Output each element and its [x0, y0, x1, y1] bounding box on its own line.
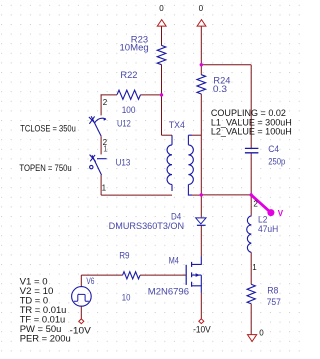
- svg-text:1: 1: [102, 183, 107, 192]
- svg-text:10Meg: 10Meg: [120, 43, 149, 53]
- svg-text:0: 0: [199, 4, 204, 13]
- svg-text:R22: R22: [120, 70, 137, 80]
- svg-text:L2_VALUE = 100uH: L2_VALUE = 100uH: [211, 127, 292, 138]
- svg-text:U12: U12: [117, 119, 131, 129]
- svg-text:TX4: TX4: [169, 120, 185, 130]
- svg-text:M2N6796: M2N6796: [148, 286, 189, 296]
- svg-text:-10V: -10V: [193, 325, 211, 336]
- svg-text:0: 0: [259, 329, 264, 338]
- svg-text:PER = 200u: PER = 200u: [20, 334, 71, 345]
- svg-text:2: 2: [103, 98, 108, 107]
- svg-text:DMURS360T3/ON: DMURS360T3/ON: [109, 221, 184, 231]
- svg-text:R8: R8: [267, 286, 278, 296]
- svg-text:0: 0: [159, 4, 164, 13]
- svg-text:M4: M4: [169, 256, 179, 266]
- svg-text:0.3: 0.3: [213, 84, 227, 94]
- svg-text:10: 10: [122, 292, 131, 302]
- svg-text:R9: R9: [119, 251, 129, 261]
- svg-text:1: 1: [103, 145, 108, 154]
- svg-text:U13: U13: [116, 157, 131, 167]
- svg-text:47uH: 47uH: [258, 224, 278, 234]
- svg-text:TCLOSE = 350u: TCLOSE = 350u: [20, 124, 76, 135]
- svg-text:757: 757: [267, 297, 281, 307]
- svg-text:V6: V6: [86, 276, 94, 286]
- svg-text:250p: 250p: [268, 157, 285, 167]
- svg-text:V: V: [278, 209, 284, 218]
- svg-text:1: 1: [252, 263, 257, 272]
- svg-text:-10V: -10V: [70, 325, 92, 336]
- svg-text:TOPEN = 750u: TOPEN = 750u: [19, 163, 71, 174]
- svg-text:C4: C4: [268, 144, 279, 154]
- svg-text:100: 100: [122, 105, 136, 115]
- svg-text:2: 2: [253, 199, 258, 208]
